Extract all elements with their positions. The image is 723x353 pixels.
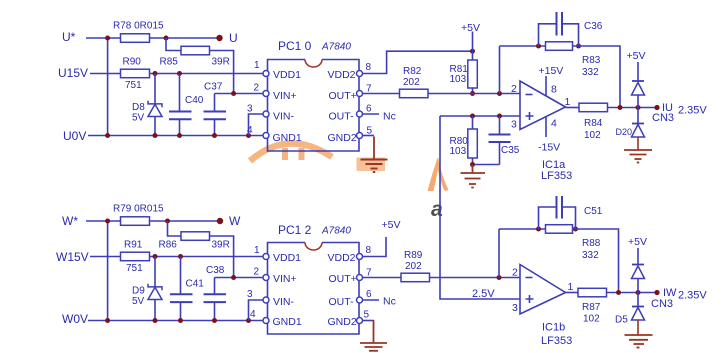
ground GND2 top — [361, 160, 388, 173]
IC U-PC12 body — [268, 243, 360, 335]
svg-text:103: 103 — [450, 146, 467, 157]
svg-text:R90: R90 — [123, 57, 142, 68]
wire feedback to output node (IC1b) — [573, 229, 619, 293]
wire 2.5V riser — [440, 116, 520, 299]
node VIN+ junction — [231, 91, 236, 96]
svg-text:VDD1: VDD1 — [273, 252, 301, 264]
node output x620 — [618, 105, 623, 110]
svg-text:-15V: -15V — [538, 142, 560, 154]
svg-text:C37: C37 — [204, 82, 223, 93]
resistor R82 — [400, 89, 429, 98]
svg-text:+5V: +5V — [627, 50, 646, 62]
svg-text:R89: R89 — [404, 250, 423, 261]
pin circle 8 VDD2 (PC12) — [357, 254, 363, 260]
op-amp IC1a minus sign — [526, 94, 533, 96]
svg-text:2.5V: 2.5V — [472, 288, 495, 300]
diode D20 — [632, 108, 645, 151]
svg-text:W15V: W15V — [56, 250, 89, 264]
node output x618 (IC1b) — [616, 290, 621, 295]
svg-text:8: 8 — [366, 62, 372, 73]
svg-text:+5V: +5V — [628, 236, 647, 248]
svg-text:CN3: CN3 — [652, 112, 674, 124]
pin circle 6 OUT- (PC12) — [357, 297, 363, 303]
svg-text:R79 0R015: R79 0R015 — [113, 204, 164, 215]
svg-text:5V: 5V — [132, 113, 145, 124]
svg-text:102: 102 — [583, 314, 600, 325]
node R80 top — [470, 114, 475, 119]
svg-text:OUT+: OUT+ — [329, 273, 357, 285]
capacitor C40 — [169, 74, 192, 136]
node W0V x214 — [212, 318, 217, 323]
wire R91 to pin1 VDD1 (PC12) — [150, 256, 264, 258]
IC U-PC10 body — [268, 60, 360, 152]
node W0V x154 — [153, 318, 158, 323]
svg-text:5: 5 — [364, 310, 370, 321]
wire W* vertical to W0V — [107, 221, 109, 321]
ground under D5 — [625, 335, 653, 348]
svg-text:6: 6 — [366, 104, 372, 115]
wire pin8 to +5V stub (PC12) — [363, 237, 387, 257]
svg-text:C51: C51 — [584, 206, 603, 217]
svg-text:4: 4 — [250, 309, 256, 320]
wire pin6 stub (PC12) — [363, 299, 380, 301]
svg-text:W*: W* — [62, 214, 78, 228]
terminal W dot — [217, 218, 223, 224]
wire pin5 to ground (PC12) — [363, 320, 374, 322]
resistor R79 — [121, 217, 150, 226]
wire feedback riser — [499, 46, 501, 94]
svg-text:a: a — [431, 198, 443, 221]
op-amp IC1a plus sign — [526, 112, 534, 120]
svg-text:OUT-: OUT- — [329, 296, 355, 308]
svg-text:102: 102 — [584, 130, 601, 141]
wire feedback riser (IC1b) — [498, 229, 500, 278]
svg-text:C35: C35 — [501, 145, 520, 156]
wire R85 to VIN+ line — [210, 51, 234, 94]
pin circle 7 OUT+ (PC12) — [357, 275, 363, 281]
svg-text:R82: R82 — [403, 66, 422, 77]
svg-text:R84: R84 — [584, 118, 603, 129]
wire R82 to op-amp minus — [428, 93, 520, 95]
wire VIN- link (PC12) — [249, 300, 264, 321]
wire VIN+ line — [215, 93, 264, 95]
svg-text:751: 751 — [125, 80, 142, 91]
svg-text:103: 103 — [450, 74, 467, 85]
wire R84 to IU terminal — [608, 107, 657, 109]
wire U15V lead — [90, 73, 121, 75]
watermark glyph bars — [282, 148, 288, 160]
svg-text:LF353: LF353 — [541, 170, 572, 182]
pin circle 7 OUT+ — [357, 91, 363, 97]
wire op-amp output — [566, 107, 580, 109]
wire feedback line left (IC1b) — [499, 228, 546, 230]
svg-text:U*: U* — [62, 30, 76, 44]
node C51 left — [536, 227, 541, 232]
svg-text:C38: C38 — [206, 265, 225, 276]
IC PC10 notch — [305, 60, 322, 68]
watermark arc — [250, 143, 332, 161]
svg-text:3: 3 — [511, 119, 517, 131]
svg-text:R83: R83 — [582, 55, 601, 66]
svg-text:R91: R91 — [124, 240, 143, 251]
svg-text:R85: R85 — [160, 57, 179, 68]
wire U* lead — [86, 37, 121, 39]
svg-text:5V: 5V — [132, 296, 145, 307]
watermark flame — [428, 158, 449, 191]
svg-text:202: 202 — [405, 261, 422, 272]
node feedback tap — [497, 91, 502, 96]
svg-text:U15V: U15V — [58, 66, 88, 80]
terminal IU dot — [654, 105, 659, 110]
svg-text:+5V: +5V — [382, 219, 401, 231]
svg-text:4: 4 — [247, 125, 253, 136]
svg-text:VIN+: VIN+ — [273, 90, 297, 102]
svg-text:332: 332 — [582, 250, 599, 261]
node after R78 — [164, 36, 169, 41]
pin circle 1 VDD1 (PC12) — [263, 254, 269, 260]
svg-text:2: 2 — [254, 83, 260, 94]
capacitor C36 — [539, 12, 579, 46]
resistor R86 39R — [181, 232, 210, 241]
svg-text:LF353: LF353 — [541, 335, 572, 347]
resistor R91 — [121, 252, 150, 261]
wire +5V stem — [472, 32, 474, 52]
svg-text:GND2: GND2 — [328, 316, 357, 328]
svg-text:PC1 2: PC1 2 — [278, 223, 312, 237]
pin circle 4 GND1 — [263, 133, 269, 139]
svg-text:R87: R87 — [582, 302, 601, 313]
wire pin7 to R89 — [363, 277, 402, 279]
capacitor C37 — [204, 94, 227, 136]
node U0V x154 — [153, 133, 158, 138]
node U0V x108 — [105, 133, 110, 138]
pin circle 1 VDD1 — [263, 71, 269, 77]
diode clamp to +5V (bottom) — [632, 248, 645, 293]
svg-text:C41: C41 — [186, 279, 205, 290]
svg-text:+5V: +5V — [461, 22, 480, 34]
wire U0V rail — [88, 135, 263, 137]
zener diode D9 — [148, 257, 162, 321]
wire U* vertical to U0V — [107, 38, 109, 136]
svg-text:2.35V: 2.35V — [678, 105, 707, 117]
node U0V x214 — [212, 133, 217, 138]
resistor R90 — [121, 69, 150, 78]
svg-text:C40: C40 — [185, 95, 204, 106]
wire R78 to terminal U — [150, 37, 218, 39]
wire feedback line left — [500, 45, 546, 47]
svg-text:VIN-: VIN- — [273, 111, 295, 123]
node U0V x180 — [177, 133, 182, 138]
svg-text:D5: D5 — [615, 315, 628, 326]
resistor R88 — [546, 225, 573, 234]
wire pin5 to ground — [363, 135, 375, 137]
node ground join R80/C35 — [470, 162, 475, 167]
node C36 right — [576, 44, 581, 49]
wire op-amp output (IC1b) — [566, 292, 579, 294]
svg-text:VDD2: VDD2 — [328, 252, 356, 264]
wire +15V stem — [545, 76, 547, 96]
svg-text:1: 1 — [565, 96, 571, 108]
pin circle 5 GND2 — [357, 133, 363, 139]
op-amp IC1a — [520, 81, 566, 130]
wire -15V stem — [545, 117, 547, 138]
svg-text:6: 6 — [366, 289, 372, 300]
resistor R80 — [468, 116, 478, 165]
svg-text:D20: D20 — [616, 127, 633, 137]
wire R90 to pin1 VDD1 — [150, 73, 264, 75]
wire node to R85 — [166, 38, 181, 51]
svg-text:R78 0R015: R78 0R015 — [113, 21, 164, 32]
wire R79 to terminal W — [150, 220, 218, 222]
ground GND2 bottom — [360, 343, 387, 351]
wire VIN+ line (PC12) — [215, 277, 264, 279]
svg-text:332: 332 — [582, 67, 599, 78]
svg-text:OUT+: OUT+ — [329, 90, 357, 102]
pin circle 3 VIN- (PC12) — [263, 297, 269, 303]
svg-text:U: U — [229, 31, 238, 45]
wire VIN- link — [249, 114, 264, 136]
svg-text:CN3: CN3 — [651, 298, 673, 310]
svg-text:2: 2 — [512, 267, 518, 279]
pin circle 2 VIN+ — [263, 91, 269, 97]
zener diode D8 — [148, 74, 162, 136]
svg-text:VDD2: VDD2 — [328, 69, 356, 81]
svg-text:IC1b: IC1b — [542, 322, 565, 334]
terminal IW dot — [654, 290, 659, 295]
node on U* line — [105, 36, 110, 41]
svg-text:202: 202 — [403, 77, 420, 88]
svg-text:GND1: GND1 — [273, 316, 302, 328]
wire feedback to output node — [573, 46, 621, 108]
svg-text:+15V: +15V — [539, 65, 564, 77]
svg-text:39R: 39R — [212, 240, 230, 251]
node R81 bottom — [470, 91, 475, 96]
svg-text:R88: R88 — [582, 238, 601, 249]
diode clamp to +5V (top) — [632, 62, 645, 108]
svg-text:Nc: Nc — [383, 296, 396, 308]
wire W* lead — [86, 220, 121, 222]
node C40 tap — [177, 71, 182, 76]
capacitor C38 — [204, 278, 227, 321]
svg-text:PC1 0: PC1 0 — [278, 39, 312, 53]
svg-text:Nc: Nc — [383, 111, 396, 123]
resistor R83 — [546, 42, 573, 51]
capacitor C51 — [539, 196, 576, 229]
svg-text:OUT-: OUT- — [329, 111, 355, 123]
node D9 tap — [153, 254, 158, 259]
resistor R87 — [578, 288, 607, 297]
resistor R84 — [579, 103, 608, 112]
node C51 right — [573, 227, 578, 232]
svg-text:R86: R86 — [159, 240, 178, 251]
wire op-amp plus line — [440, 115, 520, 117]
pin circle 2 VIN+ (PC12) — [263, 275, 269, 281]
svg-text:VIN+: VIN+ — [273, 273, 297, 285]
node C36 left — [536, 44, 541, 49]
wire R89 to op-amp minus (IC1b) — [430, 277, 520, 279]
svg-text:2.35V: 2.35V — [678, 290, 707, 302]
ground under D20 — [624, 150, 652, 163]
pin circle 6 OUT- — [357, 111, 363, 117]
svg-text:W0V: W0V — [62, 312, 88, 326]
svg-text:GND2: GND2 — [328, 132, 357, 144]
pin circle 8 VDD2 — [357, 71, 363, 77]
resistor R78 — [121, 34, 150, 43]
svg-text:D8: D8 — [132, 102, 145, 113]
svg-text:2: 2 — [254, 267, 260, 278]
node C35 top — [497, 114, 502, 119]
svg-text:3: 3 — [247, 104, 253, 115]
diode D5 — [632, 293, 645, 336]
svg-text:8: 8 — [551, 84, 557, 96]
svg-text:U0V: U0V — [63, 129, 86, 143]
resistor R81 — [468, 51, 478, 93]
resistor R85 39R — [181, 46, 210, 55]
node C41 tap — [178, 254, 183, 259]
node W0V x108 — [105, 318, 110, 323]
svg-text:8: 8 — [366, 245, 372, 256]
wire pin6 stub — [363, 113, 380, 115]
svg-text:3: 3 — [512, 302, 518, 314]
node feedback tap (IC1b) — [497, 275, 502, 280]
svg-text:A7840: A7840 — [321, 42, 351, 53]
capacitor C41 — [170, 257, 193, 321]
capacitor C35 — [473, 116, 511, 165]
wire W15V lead — [90, 256, 121, 258]
pin circle 4 GND1 (PC12) — [263, 318, 269, 324]
wire W0V rail — [88, 320, 263, 322]
node after R79 — [165, 219, 170, 224]
svg-text:1: 1 — [254, 60, 260, 71]
op-amp IC1b minus sign — [526, 277, 533, 279]
svg-text:VIN-: VIN- — [273, 296, 295, 308]
svg-text:1: 1 — [254, 245, 260, 256]
pin circle 5 GND2 (PC12) — [357, 318, 363, 324]
node output x638 (IC1b) — [636, 290, 641, 295]
svg-text:GND1: GND1 — [273, 132, 302, 144]
node D8 tap — [153, 71, 158, 76]
svg-text:W: W — [229, 214, 241, 228]
pin circle 3 VIN- — [263, 111, 269, 117]
svg-text:VDD1: VDD1 — [273, 69, 301, 81]
wire R86 to VIN+ line — [210, 236, 234, 278]
svg-text:A7840: A7840 — [321, 226, 351, 237]
node +5V rail junction — [470, 49, 475, 54]
node U0V x248 — [246, 133, 251, 138]
svg-text:4: 4 — [551, 118, 557, 130]
op-amp IC1b — [520, 265, 566, 315]
svg-text:39R: 39R — [212, 57, 230, 68]
svg-text:1: 1 — [568, 281, 574, 293]
ground under R80 — [461, 165, 486, 188]
svg-text:751: 751 — [126, 263, 143, 274]
node VIN+ junction (PC12) — [231, 275, 236, 280]
node W0V x248 — [246, 318, 251, 323]
wire pin7 to R82 — [363, 93, 400, 95]
node W0V x180 — [178, 318, 183, 323]
terminal U dot — [216, 35, 222, 41]
svg-text:3: 3 — [247, 289, 253, 300]
wire R87 to IW terminal — [607, 292, 657, 294]
svg-text:D9: D9 — [132, 286, 145, 297]
op-amp IC1b plus sign — [526, 295, 534, 303]
IC PC12 notch — [305, 243, 322, 251]
svg-text:C36: C36 — [584, 21, 603, 32]
wire pin8 to +5V rail — [363, 51, 473, 73]
node on W* line — [105, 219, 110, 224]
resistor R89 — [401, 273, 430, 282]
wire node to R86 — [168, 221, 182, 236]
svg-text:2: 2 — [511, 83, 517, 95]
node output x638 — [636, 105, 641, 110]
